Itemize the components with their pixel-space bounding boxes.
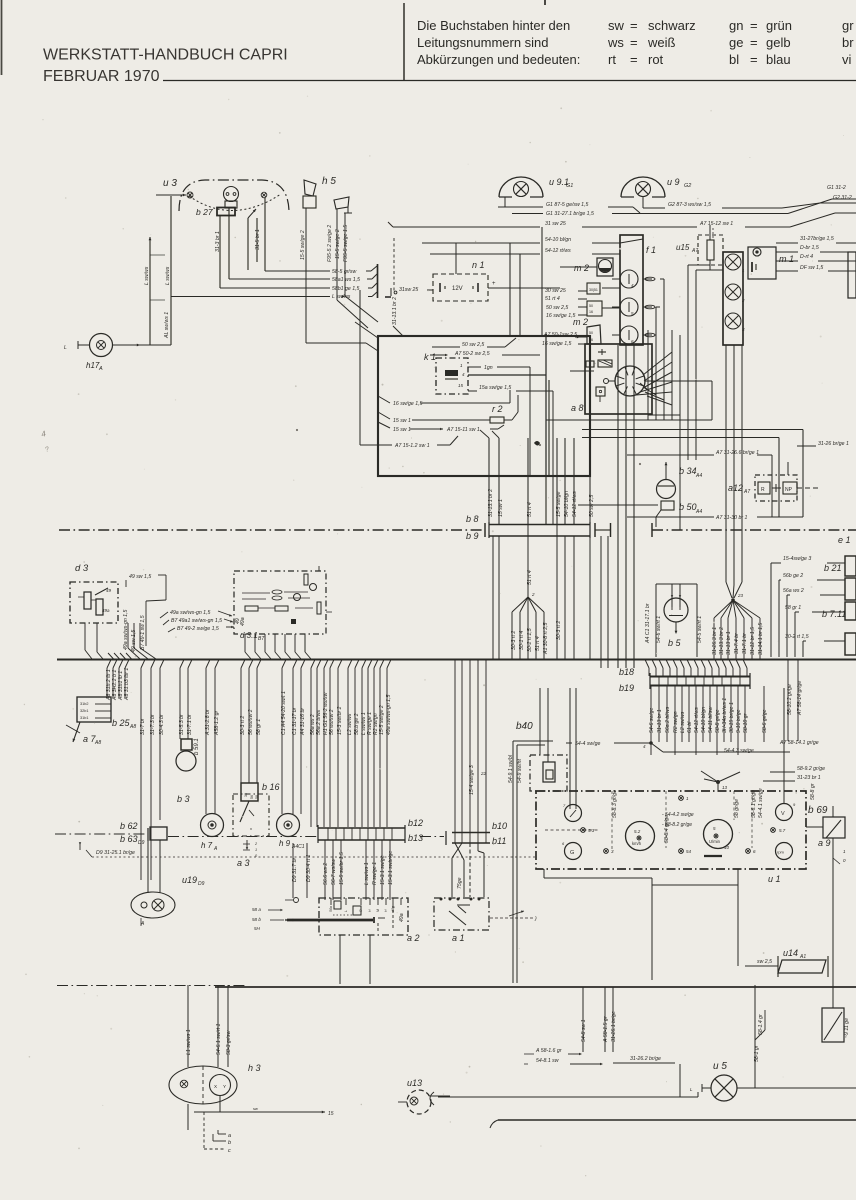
svg-text:30-19 br/ge 1: 30-19 br/ge 1 bbox=[729, 702, 735, 733]
svg-text:a 8: a 8 bbox=[571, 403, 584, 413]
svg-text:56a ws 2: 56a ws 2 bbox=[783, 588, 804, 594]
svg-text:b 25: b 25 bbox=[112, 718, 131, 728]
svg-text:U/min: U/min bbox=[709, 839, 721, 844]
svg-text:FEBRUAR 1970: FEBRUAR 1970 bbox=[43, 68, 160, 85]
svg-text:B7 49-2 sw/ge 1,5: B7 49-2 sw/ge 1,5 bbox=[177, 626, 219, 632]
svg-text:u 1: u 1 bbox=[768, 874, 781, 884]
svg-text:2: 2 bbox=[531, 592, 535, 597]
svg-text:=: = bbox=[750, 35, 758, 50]
svg-text:A7 15-12 sw 1: A7 15-12 sw 1 bbox=[699, 221, 733, 227]
svg-text:b 34: b 34 bbox=[679, 466, 697, 476]
svg-text:R: R bbox=[761, 487, 765, 493]
svg-text:31-7.1 br: 31-7.1 br bbox=[187, 714, 193, 735]
svg-text:A: A bbox=[98, 366, 103, 372]
svg-text:=: = bbox=[750, 18, 758, 33]
svg-text:31-7.3 br: 31-7.3 br bbox=[150, 714, 156, 735]
svg-text:15: 15 bbox=[458, 383, 464, 388]
svg-text:b: b bbox=[228, 1140, 231, 1146]
svg-text:b12: b12 bbox=[408, 818, 423, 828]
svg-text:30-1 rt 4: 30-1 rt 4 bbox=[519, 631, 525, 650]
svg-text:58-8 gr: 58-8 gr bbox=[810, 783, 816, 800]
svg-text:49a: 49a bbox=[399, 913, 405, 922]
svg-text:a 1: a 1 bbox=[452, 933, 465, 943]
svg-text:5.2: 5.2 bbox=[634, 829, 641, 834]
svg-text:sw: sw bbox=[608, 18, 625, 33]
svg-text:15 sw 1: 15 sw 1 bbox=[498, 499, 504, 517]
svg-text:54-6 sw/rt 1: 54-6 sw/rt 1 bbox=[656, 616, 662, 643]
svg-text:15-5 sw/ge: 15-5 sw/ge bbox=[556, 492, 562, 517]
svg-text:15 sw 1: 15 sw 1 bbox=[393, 427, 411, 433]
svg-text:31-13.1 br 2: 31-13.1 br 2 bbox=[392, 297, 398, 325]
svg-text:58-9.2 gr/ge: 58-9.2 gr/ge bbox=[797, 766, 825, 772]
svg-text:58 gr/ge: 58 gr/ge bbox=[734, 799, 740, 818]
svg-text:NP: NP bbox=[785, 487, 793, 493]
svg-text:b19: b19 bbox=[619, 683, 634, 693]
svg-text:15-5 sw/ge 2: 15-5 sw/ge 2 bbox=[379, 705, 385, 735]
svg-text:56a: 56a bbox=[329, 906, 333, 912]
svg-text:15-9 sw/br 1,5: 15-9 sw/br 1,5 bbox=[339, 852, 345, 885]
svg-text:L1 sw/ws 1: L1 sw/ws 1 bbox=[186, 1029, 192, 1055]
svg-text:16 sw/ge 1,5: 16 sw/ge 1,5 bbox=[393, 401, 423, 407]
svg-text:61 bl: 61 bl bbox=[687, 721, 693, 733]
svg-text:b 27: b 27 bbox=[196, 207, 213, 217]
svg-text:A7: A7 bbox=[743, 489, 750, 495]
svg-text:31-13.1 br 2: 31-13.1 br 2 bbox=[488, 489, 494, 517]
svg-text:=: = bbox=[630, 52, 638, 67]
svg-text:b 9: b 9 bbox=[466, 531, 479, 541]
svg-text:31-27br/ge 1,5: 31-27br/ge 1,5 bbox=[800, 236, 834, 242]
svg-text:50: 50 bbox=[589, 304, 593, 308]
svg-text:F95-5 sw/ge 1.5: F95-5 sw/ge 1.5 bbox=[343, 225, 349, 262]
svg-text:31-5 br 1: 31-5 br 1 bbox=[255, 229, 261, 250]
svg-text:58b1 ge 1,5: 58b1 ge 1,5 bbox=[332, 286, 360, 292]
svg-text:54-9 sw/ht: 54-9 sw/ht bbox=[517, 759, 523, 783]
svg-text:31-26 br/ge 1: 31-26 br/ge 1 bbox=[818, 441, 849, 447]
svg-text:n 1: n 1 bbox=[472, 260, 485, 270]
svg-text:56a.2 b/ws: 56a.2 b/ws bbox=[316, 710, 322, 735]
svg-text:31sw 25: 31sw 25 bbox=[399, 287, 418, 293]
svg-text:30 sw 25: 30 sw 25 bbox=[545, 288, 566, 294]
svg-text:58 a: 58 a bbox=[252, 907, 261, 912]
svg-text:B7 49a1 sw/ws-gn 1,5: B7 49a1 sw/ws-gn 1,5 bbox=[171, 618, 222, 624]
svg-text:a 2: a 2 bbox=[407, 933, 420, 943]
svg-text:A8: A8 bbox=[94, 740, 101, 746]
svg-text:C1 A4 54-20 sw/t 1: C1 A4 54-20 sw/t 1 bbox=[281, 691, 287, 735]
svg-text:5.7: 5.7 bbox=[779, 828, 786, 833]
svg-text:54-8 sw 1: 54-8 sw 1 bbox=[581, 1019, 587, 1042]
svg-text:A 58-1.5 gr: A 58-1.5 gr bbox=[603, 1016, 609, 1043]
svg-text:15-3.1 swbr/ge: 15-3.1 swbr/ge bbox=[388, 851, 394, 885]
svg-text:D-br 1,5: D-br 1,5 bbox=[800, 245, 819, 251]
svg-text:ge: ge bbox=[729, 35, 743, 50]
svg-text:56.6 ws 2: 56.6 ws 2 bbox=[323, 863, 329, 885]
svg-text:D9: D9 bbox=[138, 840, 145, 846]
svg-text:G: G bbox=[570, 850, 574, 856]
svg-text:30-3 rt 2: 30-3 rt 2 bbox=[511, 631, 517, 650]
svg-text:b 3: b 3 bbox=[177, 794, 190, 804]
svg-text:54-4.3 sw/ge: 54-4.3 sw/ge bbox=[724, 748, 754, 754]
svg-text:A4: A4 bbox=[695, 509, 702, 515]
svg-text:F95-5.2 sw/ge 2: F95-5.2 sw/ge 2 bbox=[327, 225, 333, 262]
svg-text:R sw/ge 1: R sw/ge 1 bbox=[372, 862, 378, 885]
svg-text:gn: gn bbox=[729, 18, 743, 33]
svg-text:49a sw/ws-gn 1,5: 49a sw/ws-gn 1,5 bbox=[123, 610, 129, 650]
svg-text:54-10 bl/gn: 54-10 bl/gn bbox=[564, 491, 570, 517]
svg-text:31-13 br 1: 31-13 br 1 bbox=[726, 631, 732, 655]
svg-text:~15-5 sw/ge 2: ~15-5 sw/ge 2 bbox=[335, 229, 341, 262]
svg-text:31-7.1 br: 31-7.1 br bbox=[742, 633, 748, 654]
svg-text:31-12 br 1,5: 31-12 br 1,5 bbox=[750, 627, 756, 655]
svg-text:L sw/ws: L sw/ws bbox=[332, 294, 351, 300]
svg-text:b 59.1: b 59.1 bbox=[194, 738, 200, 755]
svg-text:rpm: rpm bbox=[777, 850, 785, 855]
svg-text:G1: G1 bbox=[566, 183, 573, 189]
svg-text:1: 1 bbox=[255, 848, 257, 852]
svg-text:54-6.1 sw/rt 1: 54-6.1 sw/rt 1 bbox=[216, 1023, 222, 1055]
svg-text:A.31-2.8 br: A.31-2.8 br bbox=[205, 709, 211, 736]
svg-text:15 sw 1: 15 sw 1 bbox=[393, 418, 411, 424]
svg-text:A7 58-14.1 gr/ge: A7 58-14.1 gr/ge bbox=[779, 740, 819, 746]
svg-text:m 2: m 2 bbox=[574, 263, 589, 273]
svg-text:a 3: a 3 bbox=[237, 858, 250, 868]
svg-text:31-7 br: 31-7 br bbox=[140, 718, 146, 735]
svg-text:bl: bl bbox=[729, 52, 739, 67]
svg-text:+: + bbox=[492, 281, 496, 287]
svg-text:49 sw 1,5: 49 sw 1,5 bbox=[129, 574, 151, 580]
svg-text:51 rt 4: 51 rt 4 bbox=[527, 570, 533, 585]
svg-text:31-26.3 br 1: 31-26.3 br 1 bbox=[712, 627, 718, 655]
svg-text:50 sw 2,5: 50 sw 2,5 bbox=[546, 305, 568, 311]
svg-text:10: 10 bbox=[724, 845, 730, 850]
svg-text:gr: gr bbox=[842, 18, 854, 33]
svg-text:54-11 bl/sw: 54-11 bl/sw bbox=[708, 706, 714, 733]
svg-text:u 5: u 5 bbox=[713, 1061, 727, 1072]
svg-text:r 2: r 2 bbox=[492, 404, 503, 414]
svg-text:L2 sw/ws: L2 sw/ws bbox=[347, 713, 353, 735]
svg-text:A 58-1.6 gr: A 58-1.6 gr bbox=[535, 1048, 562, 1054]
svg-text:b10: b10 bbox=[492, 821, 507, 831]
svg-text:31-5.3 br: 31-5.3 br bbox=[179, 714, 185, 735]
svg-text:58-8.3 gr/ge: 58-8.3 gr/ge bbox=[612, 790, 618, 818]
svg-text:~9 11 ge: ~9 11 ge bbox=[844, 1018, 850, 1038]
svg-text:b 62: b 62 bbox=[120, 821, 138, 831]
svg-text:15-4 sw/ge 3: 15-4 sw/ge 3 bbox=[469, 765, 475, 795]
svg-text:58-6.1 gr/ge: 58-6.1 gr/ge bbox=[751, 790, 757, 818]
svg-text:30-3 rt 2: 30-3 rt 2 bbox=[240, 716, 246, 735]
svg-text:V: V bbox=[781, 811, 785, 817]
svg-text:31-26.2 br/ge: 31-26.2 br/ge bbox=[630, 1056, 661, 1062]
svg-text:Die Buchstaben hinter den: Die Buchstaben hinter den bbox=[417, 18, 570, 33]
svg-text:30-2 rt 1,5: 30-2 rt 1,5 bbox=[785, 634, 809, 640]
svg-text:AL sw/ws 1: AL sw/ws 1 bbox=[164, 312, 170, 339]
svg-text:G1 31-2: G1 31-2 bbox=[827, 185, 846, 191]
svg-text:54-5 sw/rt 1: 54-5 sw/rt 1 bbox=[697, 616, 703, 643]
svg-text:13: 13 bbox=[722, 785, 728, 790]
svg-text:56-7 ws/sw: 56-7 ws/sw bbox=[331, 858, 337, 885]
svg-text:u13: u13 bbox=[407, 1078, 422, 1088]
svg-text:b 50: b 50 bbox=[679, 502, 697, 512]
svg-text:schwarz: schwarz bbox=[648, 18, 696, 33]
svg-text:h 3: h 3 bbox=[248, 1063, 261, 1073]
svg-text:L: L bbox=[64, 345, 67, 351]
svg-text:h 5: h 5 bbox=[322, 176, 336, 187]
svg-text:A8: A8 bbox=[129, 724, 136, 730]
svg-text:31 sw 25: 31 sw 25 bbox=[545, 221, 566, 227]
svg-text:h17: h17 bbox=[86, 361, 100, 370]
svg-text:5H: 5H bbox=[254, 926, 261, 931]
svg-text:54-8.1 sw: 54-8.1 sw bbox=[536, 1058, 560, 1064]
svg-text:58 b: 58 b bbox=[252, 917, 261, 922]
svg-text:R2 sw/gn: R2 sw/gn bbox=[673, 711, 679, 733]
svg-text:B7 49-1 sw 1,5: B7 49-1 sw 1,5 bbox=[140, 615, 146, 650]
svg-text:weiß: weiß bbox=[647, 35, 676, 50]
svg-text:31-26.1 br/ge: 31-26.1 br/ge bbox=[611, 1011, 617, 1042]
svg-text:A7 31-26.6 br/ge 1: A7 31-26.6 br/ge 1 bbox=[715, 450, 759, 456]
svg-text:58: 58 bbox=[255, 795, 259, 799]
svg-text:12V: 12V bbox=[452, 286, 463, 292]
svg-text:30-4.3 br: 30-4.3 br bbox=[159, 714, 165, 735]
svg-text:32b1: 32b1 bbox=[80, 709, 88, 713]
svg-text:A7 15-1.2 sw 1: A7 15-1.2 sw 1 bbox=[394, 443, 430, 449]
svg-text:2: 2 bbox=[741, 298, 745, 303]
svg-text:A8 31.b3 lbr 1: A8 31.b3 lbr 1 bbox=[124, 668, 130, 701]
svg-text:Y: Y bbox=[223, 1084, 226, 1089]
svg-text:b 5: b 5 bbox=[668, 638, 682, 648]
svg-text:m 2: m 2 bbox=[573, 317, 588, 327]
svg-text:L sw/ws: L sw/ws bbox=[144, 266, 150, 285]
svg-text:G1 87-5 ge/sw 1,5: G1 87-5 ge/sw 1,5 bbox=[546, 202, 589, 208]
svg-text:u 9: u 9 bbox=[667, 177, 680, 187]
svg-text:54-4.1 sw/ge: 54-4.1 sw/ge bbox=[758, 788, 764, 818]
svg-text:30-2 rt 1,5: 30-2 rt 1,5 bbox=[527, 628, 533, 652]
svg-text:58-6 gr/ge: 58-6 gr/ge bbox=[762, 709, 768, 733]
svg-text:31-13 br 1: 31-13 br 1 bbox=[657, 709, 663, 733]
svg-text:X: X bbox=[214, 1084, 217, 1089]
svg-text:B7: B7 bbox=[258, 636, 264, 642]
svg-text:m 1: m 1 bbox=[779, 254, 794, 264]
svg-text:b40: b40 bbox=[516, 721, 533, 732]
svg-text:b 8: b 8 bbox=[466, 514, 479, 524]
svg-text:23: 23 bbox=[737, 593, 744, 598]
svg-text:k 1: k 1 bbox=[424, 352, 436, 362]
svg-text:54-12 rt/ws: 54-12 rt/ws bbox=[545, 248, 571, 254]
svg-text:51 rt 4: 51 rt 4 bbox=[527, 502, 533, 517]
svg-text:A7 31-30 br 1: A7 31-30 br 1 bbox=[715, 515, 748, 521]
svg-text:54-12 rt/ws: 54-12 rt/ws bbox=[694, 707, 700, 733]
svg-text:u15: u15 bbox=[676, 243, 690, 252]
svg-text:49a sw/ws-gn 1,5: 49a sw/ws-gn 1,5 bbox=[170, 610, 210, 616]
svg-text:br: br bbox=[842, 35, 854, 50]
svg-text:50 sw 2,5: 50 sw 2,5 bbox=[462, 342, 484, 348]
svg-text:A4 31-16 br: A4 31-16 br bbox=[300, 708, 306, 736]
svg-text:=: = bbox=[630, 35, 638, 50]
svg-text:54-4 sw/ge: 54-4 sw/ge bbox=[575, 741, 600, 747]
svg-text:L sw/ws 1: L sw/ws 1 bbox=[364, 862, 370, 885]
svg-text:DF sw 1,5: DF sw 1,5 bbox=[800, 265, 823, 271]
svg-text:31b2: 31b2 bbox=[80, 702, 88, 706]
svg-text:56a.2 bl/ws: 56a.2 bl/ws bbox=[665, 706, 671, 733]
svg-text:16 sw/ge 1,5: 16 sw/ge 1,5 bbox=[546, 313, 576, 319]
svg-text:b 16: b 16 bbox=[262, 782, 280, 792]
svg-text:G2 31-2: G2 31-2 bbox=[833, 195, 852, 201]
svg-text:15-3 sw/br 2: 15-3 sw/br 2 bbox=[337, 706, 343, 735]
svg-text:50 sw 2,5: 50 sw 2,5 bbox=[589, 495, 595, 517]
svg-text:rt: rt bbox=[608, 52, 616, 67]
svg-text:49a: 49a bbox=[102, 608, 110, 613]
svg-text:x: x bbox=[250, 826, 252, 831]
svg-text:31-14.1 br 1,5: 31-14.1 br 1,5 bbox=[758, 623, 764, 655]
svg-text:54-6 sw/ge: 54-6 sw/ge bbox=[649, 708, 655, 733]
svg-text:b 7.11: b 7.11 bbox=[822, 609, 846, 619]
svg-text:31b1: 31b1 bbox=[80, 716, 88, 720]
svg-text:): ) bbox=[534, 916, 537, 922]
svg-text:h 7: h 7 bbox=[201, 841, 213, 850]
svg-text:vi: vi bbox=[842, 52, 852, 67]
svg-text:c: c bbox=[228, 1148, 231, 1154]
svg-text:58-8 gr/ge: 58-8 gr/ge bbox=[715, 709, 721, 733]
svg-text:A58-1.2 gr: A58-1.2 gr bbox=[214, 711, 220, 736]
svg-text:b 69: b 69 bbox=[808, 805, 828, 816]
svg-text:31-23 br 1: 31-23 br 1 bbox=[797, 775, 821, 781]
svg-text:sw 2,5: sw 2,5 bbox=[757, 959, 772, 965]
svg-text:30-3 rt 2: 30-3 rt 2 bbox=[556, 621, 562, 640]
svg-text:h 9: h 9 bbox=[279, 839, 291, 848]
svg-text:f 1: f 1 bbox=[646, 245, 656, 255]
svg-text:G1 31-27.1 br/ge 1,5: G1 31-27.1 br/ge 1,5 bbox=[546, 211, 594, 217]
svg-text:51 rt 4: 51 rt 4 bbox=[535, 636, 541, 651]
svg-text:u19: u19 bbox=[182, 875, 197, 885]
svg-text:b13: b13 bbox=[408, 833, 423, 843]
svg-text:d 3: d 3 bbox=[75, 563, 89, 574]
svg-text:u14: u14 bbox=[783, 948, 798, 958]
svg-text:58.b ge 2: 58.b ge 2 bbox=[354, 713, 360, 735]
svg-text:A1 30-8 rt 2,5: A1 30-8 rt 2,5 bbox=[543, 622, 549, 655]
svg-text:=: = bbox=[750, 52, 758, 67]
svg-text:D-rt 4: D-rt 4 bbox=[800, 254, 813, 260]
svg-text:A: A bbox=[213, 846, 218, 852]
svg-text:56 ws/sw 2: 56 ws/sw 2 bbox=[329, 709, 335, 735]
svg-text:15: 15 bbox=[328, 1111, 334, 1117]
svg-text:G2 87-3 ws/sw 1,5: G2 87-3 ws/sw 1,5 bbox=[668, 202, 711, 208]
svg-text:b 63: b 63 bbox=[120, 834, 138, 844]
svg-text:56 ws/sw 2: 56 ws/sw 2 bbox=[248, 709, 254, 735]
svg-text:75ge: 75ge bbox=[457, 877, 463, 889]
svg-text:31-13.3 br 2: 31-13.3 br 2 bbox=[719, 627, 725, 655]
svg-text:31-3 br 1: 31-3 br 1 bbox=[215, 231, 221, 252]
svg-text:15-5 sw/ge 2: 15-5 sw/ge 2 bbox=[300, 230, 306, 260]
svg-text:A7 50-2 sw 2,5: A7 50-2 sw 2,5 bbox=[454, 351, 490, 357]
svg-text:A4: A4 bbox=[695, 473, 702, 479]
svg-text:9-10 br/ge: 9-10 br/ge bbox=[736, 709, 742, 733]
svg-text:L2 sw/ws: L2 sw/ws bbox=[680, 711, 686, 733]
svg-text:Leitungsnummern sind: Leitungsnummern sind bbox=[417, 35, 549, 50]
svg-text:15-4sw/ge 3: 15-4sw/ge 3 bbox=[783, 556, 811, 562]
svg-text:31-7.4 br: 31-7.4 br bbox=[734, 633, 740, 654]
svg-text:58-3 gr/sw: 58-3 gr/sw bbox=[226, 1030, 232, 1055]
svg-text:5.3: 5.3 bbox=[588, 828, 595, 833]
svg-text:54-10 bl/gn: 54-10 bl/gn bbox=[701, 707, 707, 733]
svg-text:blau: blau bbox=[766, 52, 791, 67]
svg-text:49: 49 bbox=[106, 588, 112, 593]
svg-text:km/h: km/h bbox=[632, 841, 642, 846]
svg-text:grün: grün bbox=[766, 18, 792, 33]
svg-text:16: 16 bbox=[589, 310, 593, 314]
svg-text:WERKSTATT-HANDBUCH CAPRI: WERKSTATT-HANDBUCH CAPRI bbox=[43, 47, 288, 64]
svg-text:54-10 bl/gn: 54-10 bl/gn bbox=[545, 237, 571, 243]
svg-text:L sw/ws: L sw/ws bbox=[165, 266, 171, 285]
svg-text:49a sw/ws-gn 1,5: 49a sw/ws-gn 1,5 bbox=[386, 695, 392, 735]
svg-text:rot: rot bbox=[648, 52, 664, 67]
svg-text:49a: 49a bbox=[240, 617, 246, 626]
svg-text:D9 31-25.1 br/ge: D9 31-25.1 br/ge bbox=[96, 850, 135, 856]
svg-text:gelb: gelb bbox=[766, 35, 791, 50]
svg-text:1gn: 1gn bbox=[484, 365, 493, 371]
svg-text:A7: A7 bbox=[691, 248, 698, 254]
svg-text:58a1 ws 1,5: 58a1 ws 1,5 bbox=[332, 277, 360, 283]
svg-text:56b ge 2: 56b ge 2 bbox=[783, 573, 803, 579]
svg-text:A7 15-11 sw 1: A7 15-11 sw 1 bbox=[446, 427, 480, 433]
svg-text:G2: G2 bbox=[684, 183, 691, 189]
svg-text:58 gr 1: 58 gr 1 bbox=[256, 719, 262, 735]
svg-text:a 9: a 9 bbox=[818, 838, 831, 848]
svg-text:A1: A1 bbox=[799, 954, 806, 960]
svg-text:Abkürzungen und bedeuten:: Abkürzungen und bedeuten: bbox=[417, 52, 580, 67]
svg-text:=: = bbox=[630, 18, 638, 33]
svg-text:a12: a12 bbox=[728, 483, 743, 493]
svg-text:30|51: 30|51 bbox=[589, 288, 598, 292]
svg-text:L: L bbox=[344, 910, 348, 912]
svg-text:22: 22 bbox=[480, 771, 487, 776]
svg-text:58-10 gr: 58-10 gr bbox=[743, 713, 749, 733]
svg-text:b18: b18 bbox=[619, 667, 634, 677]
svg-text:A4 C1 31-17.1 br: A4 C1 31-17.1 br bbox=[645, 603, 651, 644]
svg-text:58-8.4 gr/ge: 58-8.4 gr/ge bbox=[664, 815, 670, 843]
svg-text:a: a bbox=[228, 1133, 231, 1139]
svg-text:54-12 rt/ws: 54-12 rt/ws bbox=[572, 491, 578, 517]
svg-text:b 21: b 21 bbox=[824, 563, 842, 573]
svg-text:54: 54 bbox=[686, 849, 692, 854]
svg-text:e 1: e 1 bbox=[838, 535, 851, 545]
svg-text:ws: ws bbox=[607, 35, 624, 50]
svg-text:49 sw 1,5: 49 sw 1,5 bbox=[131, 630, 137, 652]
svg-text:u 3: u 3 bbox=[163, 178, 177, 189]
svg-text:C1 31-17 br: C1 31-17 br bbox=[292, 707, 298, 735]
svg-text:M: M bbox=[376, 909, 380, 912]
svg-text:50: 50 bbox=[589, 331, 593, 335]
svg-text:51 rt 4: 51 rt 4 bbox=[545, 296, 560, 302]
svg-text:3H-34a br/ws 1: 3H-34a br/ws 1 bbox=[722, 698, 728, 733]
svg-text:15a sw/ge 1,5: 15a sw/ge 1,5 bbox=[479, 385, 511, 391]
svg-text:15-3.1 sw/ge: 15-3.1 sw/ge bbox=[380, 855, 386, 885]
svg-text:56: 56 bbox=[250, 795, 254, 799]
svg-text:D9: D9 bbox=[198, 881, 205, 887]
